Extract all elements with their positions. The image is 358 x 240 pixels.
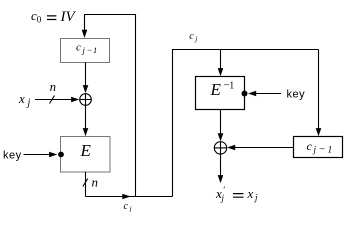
svg-text:xj: xj — [247, 186, 259, 203]
register box C2 (right c_{j-1}) — [294, 137, 343, 158]
svg-text:IV: IV — [60, 9, 77, 25]
svg-text:E: E — [80, 141, 92, 160]
arrowhead into E inverse — [218, 68, 224, 76]
wire x_j to xor1 — [35, 99, 72, 101]
wire right riser to cj-1 register — [318, 50, 320, 132]
wire drop into E inverse — [220, 50, 222, 72]
svg-text:xj: xj — [18, 91, 31, 109]
svg-text:c0: c0 — [31, 8, 42, 25]
arrowhead key into E — [49, 152, 57, 158]
wire xor2 output down — [220, 154, 222, 178]
svg-text:x′j: x′j — [215, 185, 226, 203]
svg-text:cj: cj — [124, 201, 132, 212]
svg-text:n: n — [92, 175, 99, 190]
junction dot on E^-1 right edge — [242, 91, 248, 97]
arrowhead into block E — [83, 128, 89, 136]
arrowhead cj-1 into xor2 — [227, 145, 235, 151]
wire cj bottom run — [86, 196, 173, 198]
arrowhead into xor2 — [218, 133, 224, 141]
arrowhead key into E^-1 — [248, 91, 256, 97]
xor gate X2 (right) — [214, 142, 226, 154]
label x'_j = x_j output — [215, 185, 258, 203]
junction dot on E left edge — [58, 152, 64, 158]
wire E^-1 output to xor2 — [220, 110, 222, 137]
wire cj-1 box to xor1 — [85, 63, 87, 89]
wire right cj-1 box to xor2 — [232, 147, 294, 149]
wire xor1 to block E — [85, 105, 87, 131]
arrowhead into xor1 — [83, 85, 89, 93]
wire feedback cj to cj-1 (up-left-down) — [85, 15, 136, 197]
arrowhead on cj wire — [122, 194, 130, 200]
bus slash n (output) — [83, 179, 88, 187]
svg-text:key: key — [3, 150, 22, 162]
wire key to block E — [24, 154, 51, 156]
arrowhead into right cj-1 box — [316, 128, 322, 136]
block E (encryption) — [61, 137, 111, 173]
wire decryption input riser — [173, 50, 319, 197]
wire E output down — [85, 172, 87, 197]
svg-text:key: key — [287, 89, 306, 101]
arrowhead x_j into xor1 — [71, 97, 79, 103]
register box C1 (left c_{j-1}) — [61, 39, 110, 63]
svg-text:n: n — [50, 80, 56, 94]
wire key (right) — [254, 93, 281, 95]
xor gate X1 (left) — [80, 94, 92, 106]
node c0=IV label — [31, 8, 76, 25]
arrowhead into cj-1 box — [82, 30, 88, 38]
svg-text:cj: cj — [189, 31, 197, 43]
block E^-1 (decryption) — [196, 77, 245, 110]
arrowhead output x'_j — [218, 175, 224, 183]
bus slash n (input) — [50, 96, 55, 104]
